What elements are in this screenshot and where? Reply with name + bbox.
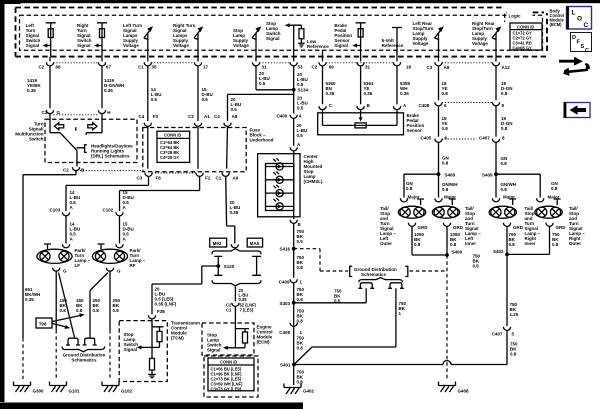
- svg-text:T98: T98: [39, 322, 47, 327]
- svg-text:Signal: Signal: [334, 43, 348, 48]
- svg-text:C2: C2: [188, 114, 194, 119]
- svg-text:0.8: 0.8: [297, 297, 304, 302]
- svg-text:0.5: 0.5: [473, 264, 480, 269]
- svg-text:C408: C408: [279, 330, 290, 335]
- svg-text:Signal: Signal: [266, 36, 280, 41]
- svg-text:C2: C2: [63, 168, 69, 173]
- svg-text:(BCM): (BCM): [550, 22, 563, 27]
- svg-text:C400: C400: [277, 114, 288, 119]
- svg-text:18: 18: [406, 65, 412, 70]
- svg-text:MA5: MA5: [250, 241, 260, 246]
- svg-text:0.8: 0.8: [442, 161, 449, 166]
- svg-text:0.35: 0.35: [230, 210, 239, 215]
- svg-text:C: C: [584, 22, 589, 29]
- svg-text:0.5: 0.5: [259, 81, 266, 86]
- svg-text:0.35: 0.35: [27, 88, 36, 93]
- svg-text:S406: S406: [452, 250, 463, 255]
- svg-text:7 (LE5): 7 (LE5): [240, 308, 254, 313]
- svg-text:C408: C408: [419, 103, 430, 108]
- svg-text:C405: C405: [421, 136, 432, 141]
- svg-text:GRD: GRD: [453, 225, 464, 230]
- svg-text:G: G: [63, 269, 67, 274]
- svg-text:C2: C2: [39, 65, 45, 70]
- svg-text:C4=68 GY: C4=68 GY: [513, 45, 532, 50]
- svg-text:31: 31: [262, 65, 268, 70]
- svg-text:Signal: Signal: [77, 43, 91, 48]
- svg-text:0.8: 0.8: [297, 319, 304, 324]
- svg-text:0.5: 0.5: [202, 97, 209, 102]
- svg-text:68: 68: [56, 65, 62, 70]
- svg-text:S416: S416: [279, 247, 290, 252]
- svg-text:0.8: 0.8: [93, 308, 100, 313]
- svg-text:F38: F38: [157, 309, 165, 314]
- svg-text:S408: S408: [445, 173, 456, 178]
- svg-text:0.8: 0.8: [297, 346, 304, 351]
- svg-text:0.35: 0.35: [364, 91, 373, 96]
- svg-text:0.8: 0.8: [551, 186, 558, 191]
- svg-text:Inner: Inner: [525, 241, 536, 246]
- svg-text:0.35: 0.35: [25, 297, 34, 302]
- svg-text:C409: C409: [279, 280, 290, 285]
- svg-text:Voltage: Voltage: [413, 41, 429, 46]
- svg-text:G102: G102: [121, 389, 133, 394]
- svg-text:0.8: 0.8: [297, 380, 304, 385]
- svg-text:C1: C1: [138, 65, 144, 70]
- svg-text:1.25: 1.25: [510, 312, 519, 317]
- svg-text:Underhood: Underhood: [250, 138, 274, 143]
- svg-text:GRD: GRD: [418, 225, 429, 230]
- svg-text:L: L: [572, 10, 576, 17]
- svg-text:D: D: [572, 35, 576, 41]
- svg-text:0.8: 0.8: [442, 126, 449, 131]
- svg-text:C: C: [585, 48, 589, 54]
- svg-text:S403: S403: [279, 301, 290, 306]
- svg-text:(TCM): (TCM): [171, 336, 184, 341]
- svg-text:0.8: 0.8: [60, 308, 67, 313]
- svg-text:0.8: 0.8: [510, 352, 517, 357]
- svg-text:Sensor: Sensor: [407, 128, 423, 133]
- svg-text:F6: F6: [156, 176, 162, 181]
- svg-text:A8: A8: [232, 114, 238, 119]
- svg-text:Voltage: Voltage: [233, 43, 249, 48]
- svg-text:Signal: Signal: [124, 347, 138, 352]
- svg-text:0.8: 0.8: [297, 265, 304, 270]
- svg-text:A9: A9: [444, 65, 450, 70]
- svg-text:O: O: [577, 16, 582, 23]
- svg-text:C4: C4: [214, 114, 220, 119]
- svg-text:35: 35: [152, 65, 158, 70]
- svg-text:0.8: 0.8: [414, 242, 421, 247]
- svg-text:Reference: Reference: [307, 44, 329, 49]
- svg-text:C3: C3: [427, 65, 433, 70]
- svg-text:53: 53: [298, 65, 304, 70]
- svg-text:F1: F1: [205, 176, 211, 181]
- svg-text:0.8: 0.8: [501, 187, 508, 192]
- svg-text:69: 69: [329, 65, 335, 70]
- svg-text:C407: C407: [479, 136, 490, 141]
- svg-text:M92: M92: [213, 241, 222, 246]
- svg-text:0.8: 0.8: [501, 161, 508, 166]
- svg-text:G300: G300: [33, 389, 45, 394]
- svg-text:S402: S402: [493, 249, 504, 254]
- svg-text:F3: F3: [153, 114, 159, 119]
- svg-text:CONN ID: CONN ID: [164, 133, 181, 138]
- svg-text:17: 17: [203, 65, 209, 70]
- svg-text:A12: A12: [502, 65, 511, 70]
- svg-text:Signal: Signal: [207, 348, 221, 353]
- svg-text:Schematics: Schematics: [71, 358, 97, 363]
- svg-text:0.8: 0.8: [509, 242, 516, 247]
- svg-text:Outer: Outer: [569, 241, 581, 246]
- svg-text:0.35: 0.35: [326, 91, 335, 96]
- svg-text:0.5: 0.5: [297, 239, 304, 244]
- svg-text:(CHMSL): (CHMSL): [304, 179, 323, 184]
- svg-text:0.35: 0.35: [239, 297, 248, 302]
- svg-text:LF: LF: [75, 263, 81, 268]
- svg-text:S134: S134: [298, 88, 309, 93]
- svg-text:0.8: 0.8: [76, 308, 83, 313]
- svg-text:S401: S401: [280, 363, 291, 368]
- svg-text:0.8: 0.8: [406, 186, 413, 191]
- svg-text:G402: G402: [303, 389, 315, 394]
- svg-text:C102: C102: [103, 208, 114, 213]
- svg-text:GRD: GRD: [513, 225, 524, 230]
- svg-text:0.35 (LNF): 0.35 (LNF): [155, 302, 177, 307]
- svg-text:G: G: [117, 269, 121, 274]
- svg-text:0.5: 0.5: [297, 82, 304, 87]
- svg-text:A1: A1: [204, 114, 210, 119]
- svg-text:RF: RF: [130, 263, 136, 268]
- svg-text:Signal: Signal: [26, 43, 40, 48]
- svg-text:0.8: 0.8: [501, 126, 508, 131]
- svg-text:G: G: [57, 110, 61, 115]
- svg-text:Reference: Reference: [382, 43, 404, 48]
- svg-text:0.5: 0.5: [151, 97, 158, 102]
- svg-text:0.35: 0.35: [400, 91, 409, 96]
- svg-text:Outer: Outer: [380, 241, 392, 246]
- svg-text:0.8: 0.8: [442, 91, 449, 96]
- svg-text:C4=28 GY: C4=28 GY: [160, 155, 179, 160]
- svg-text:C103: C103: [50, 208, 61, 213]
- svg-text:G101: G101: [69, 389, 81, 394]
- svg-text:Inner: Inner: [465, 241, 476, 246]
- svg-text:CONN ID: CONN ID: [517, 24, 534, 29]
- svg-text:Schematics: Schematics: [361, 272, 387, 277]
- svg-text:0.8: 0.8: [442, 187, 449, 192]
- svg-text:0.8: 0.8: [501, 91, 508, 96]
- svg-text:67: 67: [106, 65, 112, 70]
- svg-text:0.5: 0.5: [334, 299, 341, 304]
- svg-text:Voltage: Voltage: [123, 43, 139, 48]
- svg-text:C3: C3: [137, 176, 143, 181]
- svg-text:0.5: 0.5: [297, 133, 304, 138]
- svg-text:G408: G408: [458, 389, 470, 394]
- svg-text:0.8: 0.8: [113, 308, 120, 313]
- svg-text:0.5: 0.5: [297, 106, 304, 111]
- svg-text:S120: S120: [224, 264, 235, 269]
- svg-text:S: S: [581, 44, 585, 50]
- svg-text:Logic: Logic: [509, 14, 521, 19]
- svg-text:C407: C407: [492, 332, 503, 337]
- svg-text:(ECM): (ECM): [257, 340, 270, 345]
- svg-text:C4: C4: [139, 114, 145, 119]
- svg-text:GRD: GRD: [556, 225, 567, 230]
- svg-text:S409: S409: [482, 173, 493, 178]
- svg-text:H: H: [107, 110, 110, 115]
- svg-text:0.5: 0.5: [231, 107, 238, 112]
- svg-text:0.8: 0.8: [450, 242, 457, 247]
- svg-text:C3=73 GY (LE9): C3=73 GY (LE9): [211, 386, 242, 391]
- svg-text:C1: C1: [226, 308, 232, 313]
- svg-text:A9: A9: [233, 176, 239, 181]
- svg-text:0.8: 0.8: [552, 242, 559, 247]
- svg-text:CONN ID: CONN ID: [220, 359, 237, 364]
- svg-text:0.35: 0.35: [104, 88, 113, 93]
- svg-text:Switch: Switch: [29, 137, 44, 142]
- svg-text:C1: C1: [216, 176, 222, 181]
- svg-text:C2: C2: [312, 65, 318, 70]
- svg-text:Voltage: Voltage: [173, 43, 189, 48]
- svg-text:Voltage: Voltage: [472, 41, 488, 46]
- svg-text:31: 31: [365, 65, 371, 70]
- svg-text:(DRL) Schematics: (DRL) Schematics: [91, 154, 130, 159]
